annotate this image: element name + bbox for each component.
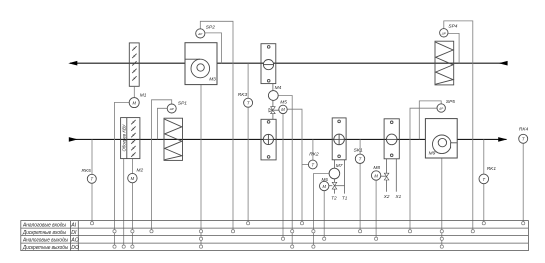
svg-text:Дискретные выходы: Дискретные выходы: [22, 245, 68, 251]
svg-text:M8: M8: [373, 165, 380, 171]
svg-text:DI: DI: [71, 230, 77, 236]
damper exhaust (grille): [129, 43, 139, 86]
node M1 DI: [113, 230, 116, 233]
svg-text:M5: M5: [280, 99, 287, 105]
svg-text:Обогрев КВУ: Обогрев КВУ: [121, 124, 126, 151]
wire: RK4 sensor drop: [522, 143, 524, 222]
IO table: [21, 221, 529, 251]
wire: KVU heating signal: [123, 159, 125, 246]
pump M7: [329, 168, 340, 179]
svg-text:M9: M9: [429, 151, 436, 157]
svg-text:ΔP: ΔP: [438, 107, 443, 111]
svg-text:T2: T2: [331, 195, 337, 200]
sensor SK1: [355, 154, 364, 163]
svg-text:T: T: [359, 157, 362, 162]
svg-text:M: M: [132, 101, 136, 106]
node SP5 DI: [408, 230, 411, 233]
node M3 DI: [199, 230, 202, 233]
svg-text:M7: M7: [336, 163, 343, 169]
svg-text:T: T: [312, 162, 315, 167]
node M9 DI: [440, 230, 443, 233]
supply flow arrow left end: [69, 137, 78, 142]
heater HX supply (zigzag): [164, 118, 183, 160]
damper supply recirculation: [261, 119, 276, 160]
sensor RK2: [308, 160, 317, 169]
sensor SP2: [196, 29, 205, 38]
valve 3-way M5: [269, 107, 275, 114]
wire: SP5 inner signal: [410, 108, 437, 229]
node M5 AO: [281, 237, 284, 240]
svg-text:M2: M2: [137, 168, 144, 174]
svg-text:SP2: SP2: [206, 25, 215, 31]
svg-text:M: M: [281, 107, 285, 112]
svg-text:Аналоговые выходы: Аналоговые выходы: [22, 237, 68, 243]
wire: RK1 sensor drop: [483, 139, 485, 222]
wire: SP1 duct tap: [157, 108, 167, 139]
sensor RK3: [244, 98, 253, 107]
node M8 AO: [375, 237, 378, 240]
motor M8: [371, 171, 380, 180]
wire: M6 valve link: [329, 185, 332, 187]
node M7 DI: [312, 230, 315, 233]
pipe T2 heater supply: [334, 160, 336, 194]
svg-text:T: T: [91, 177, 94, 182]
heat exchanger exhaust (zigzag): [435, 41, 454, 85]
node KVU DO: [122, 245, 125, 248]
svg-text:ΔP: ΔP: [441, 32, 446, 36]
node M9 DO: [440, 245, 443, 248]
motor M6: [320, 181, 329, 190]
cooling coil supply: [384, 119, 399, 159]
svg-text:M3: M3: [209, 77, 216, 83]
heating coil supply: [332, 118, 346, 160]
wire: RK3 sensor drop: [247, 63, 249, 221]
svg-text:SP5: SP5: [446, 99, 455, 105]
node RK1 AI: [482, 222, 485, 225]
svg-text:SP1: SP1: [178, 100, 187, 106]
sensor RK5: [87, 174, 96, 183]
motor M1: [129, 98, 139, 108]
svg-text:SK1: SK1: [354, 148, 363, 154]
wire: RK2 link to bus: [302, 164, 309, 166]
wire: SP2 duct tap: [205, 33, 222, 63]
wire: RK2 duct tap: [312, 139, 314, 160]
svg-text:M4: M4: [275, 85, 282, 91]
node SP4 DI: [471, 230, 474, 233]
node M7 DO: [312, 245, 315, 248]
node SP2 DI: [231, 230, 234, 233]
node M4 DI: [291, 230, 294, 233]
wire: supply duct bottom line: [69, 138, 507, 140]
svg-text:RK4: RK4: [519, 127, 529, 133]
wire: fan M3 signals drop: [200, 85, 202, 246]
wire: SP4 outer signal loop: [444, 21, 473, 230]
node SP1 DI: [150, 230, 153, 233]
svg-text:DO: DO: [71, 245, 79, 251]
pump M4: [268, 91, 278, 101]
pipe X2 cooler: [386, 159, 388, 192]
terminal nodes: [90, 222, 524, 249]
node M3 AO: [199, 237, 202, 240]
node M5 AI: [300, 222, 303, 225]
svg-text:ΔP: ΔP: [197, 32, 202, 36]
svg-text:M1: M1: [140, 93, 147, 99]
valve 3-way heater: [332, 182, 337, 189]
node M3 DO: [199, 245, 202, 248]
fan M9 supply: [425, 119, 457, 158]
pipe valve to T1: [335, 185, 345, 187]
sensor SP1: [167, 104, 176, 113]
wire: M7 pump signal: [313, 174, 328, 246]
sensor SP4: [440, 29, 448, 37]
svg-text:T: T: [483, 177, 486, 182]
svg-text:M: M: [322, 184, 326, 189]
pipe T1 heater return: [344, 160, 346, 194]
node M4 DO: [291, 245, 294, 248]
wire: RK5 sensor drop: [91, 139, 93, 221]
motor M5: [279, 105, 287, 113]
svg-text:ΔP: ΔP: [169, 107, 174, 111]
wire: SP2 outer signal loop: [200, 21, 233, 229]
sensor RK1: [479, 174, 489, 184]
svg-text:AO: AO: [70, 237, 79, 243]
node M1 DO: [113, 245, 116, 248]
svg-text:Аналоговые входы: Аналоговые входы: [22, 222, 66, 228]
supply flow arrow right end: [498, 137, 507, 142]
svg-text:T1: T1: [342, 195, 348, 200]
svg-text:Дискретные входы: Дискретные входы: [22, 230, 66, 236]
wire: SK1 thermostat: [359, 139, 361, 229]
exhaust flow arrow left end: [68, 61, 77, 66]
svg-text:M6: M6: [322, 177, 329, 182]
node RK5 AI: [90, 222, 93, 225]
wire: M4 pump signal: [278, 96, 292, 246]
wire: recirculation pipe M4: [272, 84, 274, 120]
wire: M5 valve link: [274, 109, 279, 111]
pipe X1 cooler: [395, 159, 397, 192]
wire: M8 valve link: [381, 175, 387, 177]
damper KVU supply: [121, 118, 140, 159]
svg-text:RK5: RK5: [82, 168, 92, 174]
svg-text:X1: X1: [395, 194, 402, 199]
node M6 AO: [323, 237, 326, 240]
valve cooler: [384, 173, 389, 180]
motor M2: [128, 173, 137, 182]
svg-text:SP4: SP4: [448, 23, 457, 29]
svg-text:X2: X2: [383, 194, 390, 199]
svg-text:T: T: [247, 101, 250, 106]
wire: M5 analog drop: [282, 114, 284, 238]
svg-text:M: M: [131, 176, 135, 181]
wire: M5 signal right loop: [287, 109, 302, 221]
node M2 DO: [131, 245, 134, 248]
sensor RK4: [519, 134, 528, 143]
wire: M8 valve motor drop: [375, 180, 377, 237]
node M2 DI: [131, 230, 134, 233]
svg-text:RK3: RK3: [238, 92, 248, 98]
sensor SP5: [437, 104, 445, 112]
node SK1 DI: [359, 230, 362, 233]
svg-text:RK2: RK2: [309, 151, 319, 157]
svg-text:M: M: [374, 173, 378, 178]
svg-text:RK1: RK1: [487, 166, 497, 172]
node RK3 AI: [247, 222, 250, 225]
fan M3 exhaust: [185, 43, 217, 85]
svg-text:AI: AI: [70, 222, 76, 228]
wire: SP4 duct tap: [448, 33, 459, 63]
wire: M2 actuator drop: [131, 159, 133, 246]
wire: SP1 outer signal loop: [152, 100, 172, 230]
wire: damper to M1: [133, 86, 135, 97]
damper exhaust recirculation: [261, 44, 276, 84]
wire: SP5 outer duct tap: [419, 101, 441, 139]
wire: fan M9 signals drop: [441, 158, 443, 245]
svg-text:T: T: [522, 137, 525, 142]
wire: M1 actuator signal: [115, 102, 130, 245]
node RK4 AI: [522, 222, 525, 225]
node M9 AO: [440, 237, 443, 240]
wire: M6 valve motor drop: [323, 191, 325, 237]
exhaust flow arrow right end: [499, 61, 508, 66]
wire: exhaust duct top line: [70, 62, 508, 64]
